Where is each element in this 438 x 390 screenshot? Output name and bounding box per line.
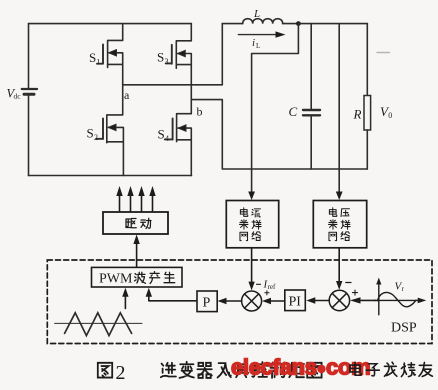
svg-text:S: S bbox=[87, 126, 94, 141]
svg-text:DSP: DSP bbox=[391, 321, 417, 336]
svg-text:S: S bbox=[89, 50, 96, 65]
svg-text:i: i bbox=[252, 37, 255, 49]
label V_r bbox=[395, 281, 405, 294]
wire: bridge bottom rail bbox=[29, 175, 192, 177]
arrow i_L bbox=[238, 31, 285, 37]
watermark: elecfans chinese bbox=[350, 362, 433, 376]
wire: node b to output bottom bbox=[191, 100, 367, 169]
label V_o bbox=[380, 104, 392, 120]
wire: PWM to drive arrow bbox=[133, 235, 139, 268]
svg-text:S: S bbox=[158, 127, 165, 142]
svg-text:4: 4 bbox=[165, 134, 169, 143]
svg-text:L: L bbox=[253, 8, 260, 20]
capacitor C bbox=[303, 24, 320, 169]
block: PWM wave generator bbox=[92, 267, 183, 287]
svg-text:L: L bbox=[256, 42, 260, 50]
wire: left rail lower (Vdc to bottom rail) bbox=[28, 96, 30, 176]
wire: top DC rail bbox=[29, 23, 192, 25]
label I_ref bbox=[263, 279, 276, 292]
label V_dc bbox=[7, 87, 22, 101]
block: PI regulator bbox=[285, 290, 306, 311]
transistor S2 bbox=[97, 85, 124, 176]
caption: inverter and its control block diagram bbox=[161, 362, 322, 378]
battery V_dc bbox=[22, 89, 37, 94]
label voltage sampling text bbox=[329, 208, 351, 241]
transistor S4 bbox=[165, 100, 192, 176]
wire: left rail upper (Vdc to top rail) bbox=[28, 24, 30, 88]
svg-text:dc: dc bbox=[14, 92, 22, 101]
svg-text:0: 0 bbox=[388, 111, 392, 120]
label S3 bbox=[157, 50, 169, 67]
label S4 bbox=[158, 127, 170, 144]
block: voltage sampling network bbox=[313, 201, 366, 248]
wire: voltage box to summer 2 bbox=[336, 248, 342, 290]
label S1 bbox=[89, 50, 101, 67]
polarity mark (faint) bbox=[377, 52, 390, 54]
svg-text:R: R bbox=[353, 107, 362, 122]
label plus (summer2) bbox=[353, 290, 358, 295]
svg-text:S: S bbox=[157, 50, 164, 65]
summer 2 (voltage loop) bbox=[329, 290, 349, 310]
label current sampling text bbox=[240, 208, 262, 241]
label S2 bbox=[87, 126, 99, 143]
wire: current box to summer 1 bbox=[248, 248, 254, 291]
transistor S3 bbox=[166, 24, 192, 100]
transistor S1 bbox=[97, 24, 123, 85]
wire: PI to summer1 bbox=[262, 298, 285, 304]
wire arrowhead into current sampling box bbox=[248, 192, 255, 201]
svg-text:3: 3 bbox=[165, 57, 169, 66]
gate drive arrows (4) bbox=[116, 186, 155, 212]
wire arrowhead into voltage sampling box bbox=[336, 192, 343, 201]
svg-text:a: a bbox=[124, 88, 130, 102]
wire: P output to PWM bbox=[146, 288, 197, 301]
svg-text:P: P bbox=[203, 296, 211, 311]
wire: summer2 to PI bbox=[306, 297, 329, 303]
svg-text:2: 2 bbox=[116, 362, 126, 384]
label PWM text bbox=[99, 272, 133, 287]
label plus (summer1) bbox=[265, 291, 269, 295]
svg-text:PWM: PWM bbox=[99, 272, 133, 287]
triangle carrier waveform bbox=[55, 313, 142, 336]
wire: reference sine to summer2 bbox=[350, 297, 376, 303]
caption: fig 2 bbox=[98, 363, 112, 378]
wire: current sense tap bbox=[252, 24, 299, 193]
wire: top rail to load bbox=[298, 23, 367, 25]
junction node (L output) bbox=[296, 21, 301, 26]
inductor L bbox=[222, 19, 298, 24]
label drive text bbox=[126, 218, 151, 228]
label minus (summer2) bbox=[346, 282, 351, 284]
svg-text:C: C bbox=[289, 104, 298, 119]
block: current sampling network bbox=[226, 201, 278, 248]
resistor R bbox=[364, 24, 371, 169]
block: drive (driver) bbox=[103, 212, 168, 234]
wire: voltage sense tap bbox=[338, 24, 340, 193]
label i_L bbox=[252, 37, 260, 50]
label minus (summer1) bbox=[257, 283, 261, 285]
wire: summer1 to P bbox=[218, 298, 242, 304]
svg-text:b: b bbox=[197, 105, 203, 119]
wire: node a to inductor riser bbox=[123, 24, 223, 85]
reference sine source bbox=[375, 278, 427, 315]
wire: triangle carrier into PWM bbox=[122, 288, 128, 309]
svg-text:2: 2 bbox=[94, 133, 98, 142]
summer 1 (current loop) bbox=[242, 291, 262, 311]
svg-text:PI: PI bbox=[289, 295, 302, 310]
block: DSP dashed box bbox=[47, 260, 432, 344]
svg-text:ref: ref bbox=[268, 283, 276, 291]
svg-text:1: 1 bbox=[97, 58, 101, 67]
block: P regulator bbox=[197, 291, 217, 312]
